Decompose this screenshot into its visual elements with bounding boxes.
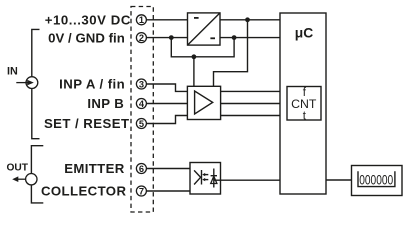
OUT symbol (arrow out of circle) xyxy=(12,174,37,185)
terminal 5 xyxy=(136,119,146,129)
svg-text:5: 5 xyxy=(139,119,144,129)
wire amplifier out A to uC xyxy=(221,90,281,92)
wire terminal5 to amplifier (with jog) xyxy=(147,116,187,124)
terminal block dashed outline xyxy=(131,7,153,213)
wire DC/DC to uC (+ rail) xyxy=(220,19,280,21)
svg-text:000000: 000000 xyxy=(359,172,393,188)
junction dot 0V right xyxy=(232,35,237,40)
svg-text:3: 3 xyxy=(139,79,144,89)
svg-text:6: 6 xyxy=(139,164,144,174)
wire terminal7 to optocoupler xyxy=(146,190,190,192)
DC/DC converter xyxy=(188,13,221,45)
terminal 2 xyxy=(136,33,146,43)
svg-text:COLLECTOR: COLLECTOR xyxy=(41,183,126,198)
terminal 1 xyxy=(136,15,146,25)
terminal 4 xyxy=(136,99,146,109)
wire amplifier out C to uC xyxy=(221,115,281,117)
junction dot 0V left xyxy=(169,35,174,40)
svg-text:1: 1 xyxy=(139,15,144,25)
junction dot U-wire xyxy=(192,54,197,59)
svg-text:μC: μC xyxy=(295,26,313,41)
terminal 6 xyxy=(136,164,146,174)
wire U-junction down to amplifier top xyxy=(193,57,195,86)
IN bracket xyxy=(32,29,40,138)
wire DC/DC to uC (0V rail) xyxy=(220,37,280,39)
svg-text:0V / GND fin: 0V / GND fin xyxy=(48,30,125,45)
wire terminal2 to DC/DC xyxy=(146,37,187,39)
svg-text:OUT: OUT xyxy=(6,163,28,174)
svg-text:+10...30V DC: +10...30V DC xyxy=(45,13,131,28)
svg-text:CNT: CNT xyxy=(291,97,317,111)
junction dot on + rail xyxy=(245,17,250,22)
svg-text:7: 7 xyxy=(139,186,144,196)
wire + rail branch to amplifier top xyxy=(214,20,248,86)
wire amplifier out B to uC xyxy=(221,103,281,105)
wire optocoupler to uC xyxy=(214,179,280,181)
counter CNT xyxy=(287,87,321,123)
wire terminal1 to DC/DC xyxy=(146,19,187,21)
wire uC to display xyxy=(326,179,352,181)
terminal 3 xyxy=(136,79,146,89)
IN symbol (arrow into circle) xyxy=(16,77,38,89)
microcontroller uC xyxy=(280,13,326,194)
amplifier U2 xyxy=(187,86,220,119)
wire U-shape under DC/DC xyxy=(171,38,234,57)
svg-text:4: 4 xyxy=(139,99,145,109)
svg-text:IN: IN xyxy=(7,66,18,78)
wire terminal4 to amplifier xyxy=(146,103,187,105)
wire terminal6 to optocoupler xyxy=(146,168,190,170)
svg-text:2: 2 xyxy=(139,33,144,43)
svg-text:INP A / fin: INP A / fin xyxy=(59,77,125,92)
optocoupler U3 xyxy=(190,163,221,195)
svg-text:SET / RESET: SET / RESET xyxy=(44,116,130,131)
svg-text:INP B: INP B xyxy=(87,96,124,111)
OUT bracket xyxy=(31,146,43,203)
svg-text:EMITTER: EMITTER xyxy=(64,161,124,176)
terminal 7 xyxy=(136,186,146,196)
wire terminal3 to amplifier (with jog) xyxy=(147,84,187,91)
display (000000) xyxy=(352,166,403,196)
